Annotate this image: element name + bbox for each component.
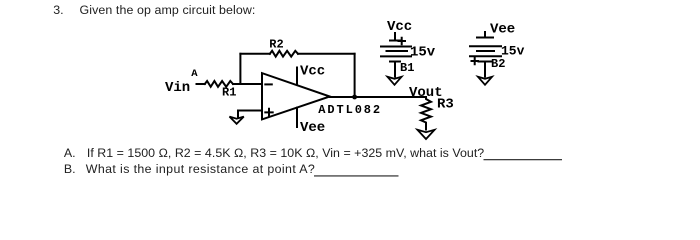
battery B2 short bar bottom bbox=[479, 61, 492, 63]
battery B1 short bar top bbox=[390, 40, 400, 42]
op-amp inverting input minus symbol bbox=[265, 83, 272, 85]
op-amp non-inverting input plus symbol bbox=[265, 109, 272, 116]
svg-text:Vcc: Vcc bbox=[387, 19, 412, 35]
answer blank line B bbox=[314, 175, 399, 177]
svg-text:Vee: Vee bbox=[490, 22, 515, 38]
wire: non-inverting input to ground bbox=[238, 111, 262, 117]
svg-text:ADTL082: ADTL082 bbox=[318, 103, 382, 117]
svg-text:What is the input resistance a: What is the input resistance at point A? bbox=[86, 162, 315, 176]
wire: R1 to op-amp inverting input bbox=[233, 83, 262, 85]
svg-text:3.: 3. bbox=[53, 3, 63, 17]
resistor R2 bbox=[270, 51, 298, 57]
svg-text:R1: R1 bbox=[222, 86, 236, 100]
svg-text:B1: B1 bbox=[400, 61, 414, 75]
wire: feedback top right segment bbox=[298, 53, 355, 55]
wire: op-amp output to R3 bbox=[330, 96, 426, 98]
ground symbol below resistor R3 bbox=[418, 130, 435, 139]
battery B1 stem bottom bbox=[394, 62, 396, 77]
battery B2 short bar top bbox=[477, 37, 493, 39]
op-amp U1 triangle bbox=[262, 73, 330, 119]
battery B2 long plate bbox=[470, 45, 501, 47]
svg-text:A.: A. bbox=[64, 146, 76, 160]
svg-text:Given the op amp circuit below: Given the op amp circuit below: bbox=[80, 3, 256, 17]
ground symbol below battery B2 bbox=[478, 77, 492, 85]
battery B1 mid plate bbox=[387, 50, 408, 52]
battery B1 stem top bbox=[394, 33, 396, 41]
battery B2 stem top bbox=[484, 32, 486, 38]
battery B1 short bar bottom bbox=[390, 61, 400, 63]
svg-text:Vin: Vin bbox=[165, 80, 190, 96]
svg-text:B2: B2 bbox=[491, 57, 505, 71]
battery B2 mid plate bbox=[477, 50, 494, 52]
ground symbol at non-inverting input bbox=[230, 117, 244, 124]
wire: feedback right vertical to output bbox=[354, 54, 356, 97]
svg-text:Vee: Vee bbox=[300, 120, 325, 136]
wire: feedback top left segment bbox=[240, 53, 269, 55]
battery B1 long plate bbox=[381, 46, 411, 48]
svg-text:Vcc: Vcc bbox=[300, 64, 325, 80]
battery B2 stem bottom bbox=[484, 62, 486, 77]
svg-text:B.: B. bbox=[64, 162, 76, 176]
battery B1 long plate lower bbox=[381, 55, 411, 57]
svg-text:15v: 15v bbox=[410, 44, 436, 60]
battery B1 plus sign bbox=[399, 38, 406, 44]
resistor R3 bbox=[421, 97, 431, 130]
battery B2 long plate lower bbox=[470, 55, 501, 57]
svg-text:R2: R2 bbox=[269, 38, 283, 52]
wire: Vin lead to R1 bbox=[197, 32, 502, 130]
svg-text:R3: R3 bbox=[437, 97, 454, 113]
svg-text:If R1 = 1500 Ω, R2 = 4.5K Ω, R: If R1 = 1500 Ω, R2 = 4.5K Ω, R3 = 10K Ω,… bbox=[87, 146, 484, 160]
op-amp Vcc pin line bbox=[296, 68, 298, 86]
junction dot at output node bbox=[352, 95, 357, 100]
battery B2 plus sign bbox=[472, 58, 479, 64]
ground symbol below battery B1 bbox=[388, 77, 402, 85]
svg-text:A: A bbox=[191, 68, 198, 80]
op-amp Vee pin line bbox=[296, 108, 298, 127]
answer blank line A bbox=[484, 159, 563, 161]
wire: feedback left vertical bbox=[239, 54, 241, 84]
resistor R1 bbox=[205, 81, 233, 87]
